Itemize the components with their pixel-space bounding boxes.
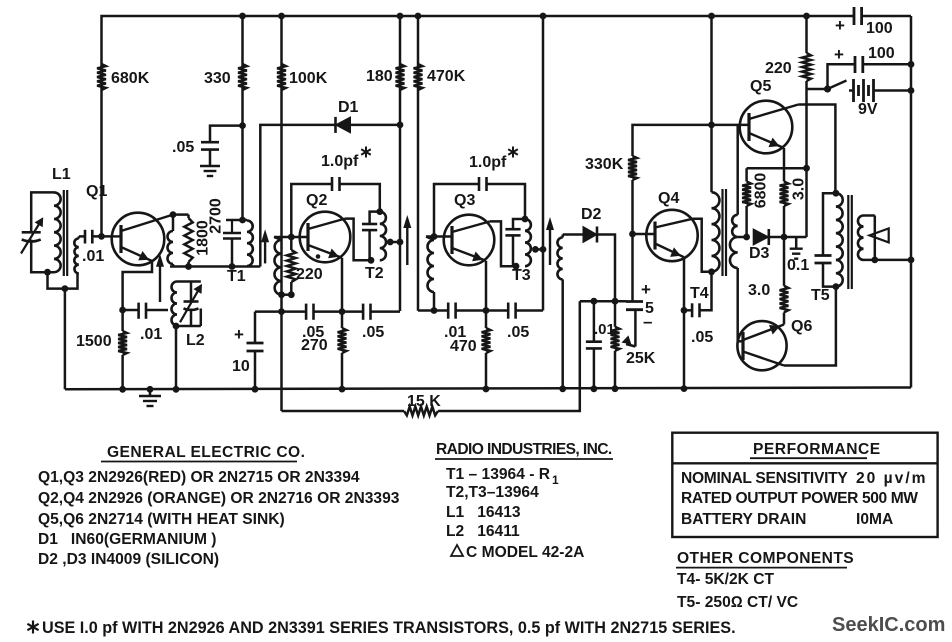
capacitor 5uF <box>626 300 643 303</box>
svg-text:I0MA: I0MA <box>856 511 893 528</box>
node L1 bottom <box>44 269 51 276</box>
wire .05 to ground <box>209 150 212 166</box>
node T3 bottom <box>513 263 520 270</box>
diode D2 <box>583 227 597 243</box>
svg-text:100K: 100K <box>289 70 328 87</box>
node Q1 base bias <box>98 233 105 240</box>
svg-text:0.1: 0.1 <box>787 257 809 274</box>
svg-text:Q3: Q3 <box>454 192 475 209</box>
svg-text:3.0: 3.0 <box>791 178 808 200</box>
wire L1 top <box>31 192 54 232</box>
transistor Q3 <box>444 215 495 266</box>
wire 180 line <box>399 16 402 242</box>
core T4 <box>721 189 723 276</box>
wire ground rail <box>65 388 911 390</box>
ground .05 bypass <box>200 165 220 167</box>
node T3 tap line <box>540 246 547 253</box>
svg-text:T1: T1 <box>227 268 246 285</box>
svg-text:3.0: 3.0 <box>748 282 770 299</box>
svg-text:1: 1 <box>552 473 559 487</box>
wire AVC Q4 <box>580 300 626 303</box>
node gnd-Q4em <box>681 385 688 392</box>
svg-text:T3: T3 <box>512 267 531 284</box>
node switch pivot <box>824 85 831 92</box>
transistor Q6 <box>737 321 786 370</box>
resistor 470K <box>414 64 423 90</box>
wire Q3 emitter <box>485 261 488 311</box>
inductor T2 primary <box>380 212 386 261</box>
text RI line5 <box>451 545 463 556</box>
svg-text:T1 – 13964 - R: T1 – 13964 - R <box>446 466 550 483</box>
capacitor C_100b 100uF <box>854 56 857 73</box>
wire 100K lower <box>280 295 283 312</box>
capacitor .05 Q3 <box>507 303 510 319</box>
svg-text:USE I.0 pf WITH 2N2926 AND 2N3: USE I.0 pf WITH 2N2926 AND 2N3391 SERIES… <box>42 619 736 637</box>
node T2 tap line <box>397 239 404 246</box>
svg-text:330: 330 <box>204 70 231 87</box>
node Q2 base <box>288 234 295 241</box>
resistor 470 <box>485 311 488 329</box>
svg-text:680K: 680K <box>111 70 150 87</box>
node gnd-10uF <box>252 386 259 393</box>
node gnd-.01Q4 <box>591 385 598 392</box>
inductor L2 <box>172 282 177 326</box>
capacitor .01 Q4 <box>593 301 596 342</box>
svg-text:330K: 330K <box>585 156 624 173</box>
node T2 bottom <box>368 257 375 264</box>
node gnd-25K <box>612 385 619 392</box>
wire AVC row Q3 <box>418 309 448 312</box>
svg-text:.05: .05 <box>362 324 384 341</box>
inductor T5 secondary <box>858 216 864 260</box>
inductor T3 primary <box>525 219 531 266</box>
svg-text:.01: .01 <box>140 326 162 343</box>
node T2sec-AVC <box>431 307 438 314</box>
wire T3tap line lower <box>542 16 545 249</box>
ground D3 node <box>795 237 798 249</box>
node rail-speaker <box>908 257 915 264</box>
resistor 6800 <box>745 168 748 181</box>
resistor 15K <box>404 407 438 416</box>
capacitor 2700 <box>231 220 233 233</box>
svg-text:Q2,Q4 2N2926 (ORANGE) OR 2N271: Q2,Q4 2N2926 (ORANGE) OR 2N2716 OR 2N339… <box>38 490 400 507</box>
wire top supply rail <box>102 16 855 236</box>
wire 330 line <box>241 16 244 220</box>
inductor T4 secondary upper <box>732 215 738 237</box>
svg-text:2700: 2700 <box>208 198 225 234</box>
arrow T1 <box>264 235 266 263</box>
svg-text:.05: .05 <box>691 329 713 346</box>
resistor 100K <box>277 64 286 90</box>
wire Q2 emitter <box>341 258 344 312</box>
wire T2 cap stem <box>370 212 380 224</box>
capacitor 0.1 <box>815 254 832 257</box>
wire 100b left <box>828 64 856 89</box>
svg-text:.05: .05 <box>172 139 194 156</box>
resistor 1800 <box>187 215 190 218</box>
wire Q1 base <box>92 235 112 238</box>
svg-text:RATED OUTPUT POWER 500 MW: RATED OUTPUT POWER 500 MW <box>681 490 918 507</box>
svg-text:GENERAL ELECTRIC CO.: GENERAL ELECTRIC CO. <box>107 444 305 461</box>
node Q3 base <box>431 233 438 240</box>
wire Q5 base <box>712 124 750 127</box>
inductor T4 primary <box>712 192 720 271</box>
wire T3 cap stem <box>513 219 525 229</box>
wire 180-line lower <box>399 242 402 311</box>
svg-text:T4: T4 <box>690 285 709 302</box>
node AVC-.01 <box>591 298 598 305</box>
node T1 bottom-2700 <box>229 263 236 270</box>
wire Q3 collector <box>490 221 516 266</box>
transistor Q5 <box>740 101 793 154</box>
wire collector top <box>173 213 189 216</box>
wire D3 cathode <box>769 236 784 239</box>
svg-text:+: + <box>234 325 244 344</box>
svg-text:100: 100 <box>868 45 895 62</box>
wire L2 bottom <box>176 324 179 327</box>
inductor T1 primary <box>247 221 253 267</box>
wire Q5 emitter <box>783 148 786 168</box>
svg-text:D1: D1 <box>338 99 359 116</box>
wire Q6 collector <box>784 287 836 366</box>
wire D1 left <box>260 125 335 267</box>
wire L2 top <box>177 280 201 283</box>
box performance <box>672 433 937 537</box>
svg-text:D1 IN60(GERMANIUM ): D1 IN60(GERMANIUM ) <box>38 531 216 548</box>
resistor 270 <box>341 312 344 328</box>
wire T1 top <box>226 219 247 222</box>
transistor Q4 <box>646 210 697 261</box>
node rail-220 <box>803 13 810 20</box>
node D3 node <box>781 234 788 241</box>
svg-text:6800: 6800 <box>753 173 770 209</box>
svg-text:D2: D2 <box>581 206 602 223</box>
transistor Q1 <box>112 213 165 266</box>
node AVC-25K <box>612 298 619 305</box>
node 220 bottom <box>288 291 295 298</box>
node speaker out <box>871 257 878 264</box>
node T1 sec bottom <box>278 291 285 298</box>
inductor T4 secondary lower <box>730 237 738 268</box>
node T3 top <box>522 216 529 223</box>
inductor T1 drive <box>172 215 175 231</box>
arrow feedback Q1 <box>159 260 161 302</box>
wire Q3 base <box>426 235 452 238</box>
resistor 220 supply <box>805 16 808 53</box>
ground main <box>149 389 152 396</box>
wire D2 cathode <box>597 235 615 302</box>
wire 220 bottom <box>282 293 292 296</box>
svg-text:1.0pf: 1.0pf <box>469 154 507 171</box>
resistor 1500 <box>121 310 124 331</box>
node gnd-T3sec <box>559 385 566 392</box>
wire L1 jog <box>48 272 78 288</box>
arrow T3sec <box>549 223 551 265</box>
capacitor .05 T4 <box>684 309 692 312</box>
svg-text:220: 220 <box>765 60 792 77</box>
inductor T5 primary <box>836 193 843 286</box>
node D3 anode <box>743 234 750 241</box>
capacitor T2 tune <box>362 223 377 226</box>
wire 470K line <box>417 16 420 311</box>
variable capacitor L1 tuning <box>22 231 41 234</box>
wire 330K top <box>633 125 712 156</box>
capacitor .01 Q1 base <box>84 230 87 244</box>
wire D2 anode <box>563 233 583 236</box>
svg-text:+: + <box>834 45 844 64</box>
svg-text:20 µv/m: 20 µv/m <box>856 470 928 487</box>
wire AVC row Q2 <box>255 310 306 313</box>
node Q5 base bias <box>708 122 715 129</box>
svg-text:T5- 250Ω CT/ VC: T5- 250Ω CT/ VC <box>677 594 798 611</box>
wire 15K right <box>438 301 580 411</box>
node rail-470K <box>415 13 422 20</box>
wire T4 sec top <box>736 125 739 215</box>
node Q4 emitter-.05 <box>681 307 688 314</box>
wire Q5 collector <box>798 105 835 194</box>
diode D1 <box>336 117 351 133</box>
svg-text:Q1: Q1 <box>86 183 107 200</box>
node Q1 collector <box>170 211 177 218</box>
wire Q4 base <box>633 233 656 236</box>
switch lever <box>828 81 847 90</box>
capacitor 1.0pf Q2 <box>291 184 332 237</box>
node gnd-470 <box>483 386 490 393</box>
wire Q2 base <box>274 236 308 239</box>
svg-text:270: 270 <box>301 337 328 354</box>
node gnd-270 <box>339 386 346 393</box>
svg-text:D2 ,D3 IN4009 (SILICON): D2 ,D3 IN4009 (SILICON) <box>38 551 219 568</box>
svg-text:.05: .05 <box>507 324 529 341</box>
capacitor C_100a 100uF in supply rail <box>853 7 856 25</box>
node rail-T4 <box>708 13 715 20</box>
node T5 bottom <box>833 283 840 290</box>
node D1-180 <box>397 122 404 129</box>
capacitor .05 Q2a <box>305 304 308 320</box>
wire D1 right <box>351 124 401 127</box>
svg-text:Q5: Q5 <box>750 78 771 95</box>
svg-text:D3: D3 <box>749 245 770 262</box>
node rail-T3tap <box>540 13 547 20</box>
capacitor .01 Q3 <box>447 303 450 319</box>
svg-text:RADIO INDUSTRIES, INC.: RADIO INDUSTRIES, INC. <box>436 441 612 458</box>
svg-text:Q2: Q2 <box>306 192 327 209</box>
resistor 680K <box>97 64 106 90</box>
wire L1 to ground rail <box>64 289 67 390</box>
wire T4 primary line <box>710 16 713 192</box>
transistor Q2 <box>300 212 351 263</box>
marking dot inside Q2 <box>316 254 321 259</box>
wire speaker bottom <box>864 259 875 262</box>
wire .05 bypass <box>210 126 243 143</box>
wire switch stub <box>807 88 828 91</box>
node rail-9V <box>908 87 915 94</box>
wire Q4 collector <box>692 219 711 272</box>
wire Q1 emitter <box>123 261 152 310</box>
resistor 220 Q2 <box>290 237 293 250</box>
node rail-100b <box>908 61 915 68</box>
node L1-gnd <box>62 285 69 292</box>
svg-text:T2: T2 <box>365 265 384 282</box>
resistor 180 <box>396 64 405 90</box>
node T1 top <box>239 217 246 224</box>
wire T5 bracket <box>823 193 836 255</box>
resistor 3.0 lower <box>783 237 786 286</box>
inductor T3 secondary <box>561 235 564 238</box>
svg-text:9V: 9V <box>858 101 878 118</box>
svg-text:+: + <box>641 280 651 299</box>
svg-text:25K: 25K <box>626 350 656 367</box>
svg-text:1500: 1500 <box>76 333 112 350</box>
svg-text:15 K: 15 K <box>407 393 441 410</box>
wire right rail <box>910 16 913 388</box>
node rail-100K <box>278 13 285 20</box>
capacitor .01 Q1 emitter <box>123 309 139 312</box>
wire 6800 top <box>747 167 807 170</box>
svg-text:.01: .01 <box>82 248 104 265</box>
node rail-180 <box>397 13 404 20</box>
capacitor T3 tune <box>505 228 520 231</box>
wire T4 sec to Q6 <box>736 268 739 341</box>
wire T2 tap <box>391 241 400 244</box>
core T5 <box>847 195 849 289</box>
wire T3 tap <box>537 248 543 251</box>
wire 5uF stem <box>631 234 634 302</box>
node L2 bottom <box>173 323 180 330</box>
svg-text:220: 220 <box>296 266 323 283</box>
resistor 3.0 upper <box>783 168 786 181</box>
capacitor 10uF <box>254 312 257 343</box>
svg-text:NOMINAL SENSITIVITY: NOMINAL SENSITIVITY <box>681 470 848 487</box>
svg-text:Q1,Q3 2N2926(RED) OR 2N2715 OR: Q1,Q3 2N2926(RED) OR 2N2715 OR 2N3394 <box>38 469 360 486</box>
node T2 top <box>376 208 383 215</box>
inductor T2 secondary <box>426 237 434 241</box>
node Q4 base <box>629 231 636 238</box>
svg-text:+: + <box>835 16 845 35</box>
node T2 tap coil <box>387 239 394 246</box>
node emitter-470 <box>483 307 490 314</box>
wire D3 to 220line <box>784 236 807 239</box>
wiper 25K <box>634 310 637 347</box>
wire T4 tap <box>738 236 747 239</box>
node 330-.05 <box>239 122 246 129</box>
node T5 top <box>833 190 840 197</box>
svg-text:470: 470 <box>450 338 477 355</box>
svg-text:C MODEL 42-2A: C MODEL 42-2A <box>466 544 584 561</box>
svg-text:180: 180 <box>366 68 393 85</box>
svg-text:–: – <box>643 312 652 331</box>
node T1 bottom-1800 <box>185 263 192 270</box>
inductor L1 secondary <box>74 238 79 273</box>
wire 100K line <box>280 16 283 295</box>
svg-text:T5: T5 <box>811 287 830 304</box>
battery 9V <box>849 89 854 92</box>
svg-text:Q4: Q4 <box>658 190 679 207</box>
svg-text:OTHER COMPONENTS: OTHER COMPONENTS <box>677 550 854 567</box>
wire L1 sec top <box>78 236 81 238</box>
resistor 330K <box>628 156 637 180</box>
svg-text:T2,T3–13964: T2,T3–13964 <box>446 484 539 501</box>
svg-text:L2: L2 <box>186 332 205 349</box>
wire Q2 collector <box>345 219 371 261</box>
wire L1 varcap bottom <box>31 240 54 273</box>
core L1 <box>63 190 65 276</box>
capacitor .05 Q2b <box>362 304 365 320</box>
node gnd-L2 <box>173 386 180 393</box>
wire Q4 emitter <box>683 257 686 387</box>
arrow T2 <box>406 221 408 265</box>
wire L2 to rail <box>175 326 178 389</box>
capacitor 1.0pf Q3 <box>434 184 479 237</box>
node emitter-270 <box>339 308 346 315</box>
star Q3 <box>512 147 514 158</box>
node gnd-1500 <box>119 386 126 393</box>
svg-text:470K: 470K <box>427 68 466 85</box>
inductor L1 primary <box>54 192 61 272</box>
wire speaker top <box>864 214 875 217</box>
variable capacitor L2 trimmer <box>190 282 193 302</box>
wire T1 bottom <box>170 265 260 268</box>
node Q1 emitter-net <box>119 307 126 314</box>
svg-text:L1: L1 <box>52 166 71 183</box>
node T4 pri bottom <box>708 268 715 275</box>
capacitor .05 bypass <box>201 141 219 144</box>
svg-text:1.0pf: 1.0pf <box>321 153 359 170</box>
node T3 tap coil <box>532 246 539 253</box>
svg-text:Q5,Q6 2N2714 (WITH HEAT SINK): Q5,Q6 2N2714 (WITH HEAT SINK) <box>38 511 285 528</box>
svg-text:BATTERY DRAIN: BATTERY DRAIN <box>681 511 806 528</box>
node gnd-sym <box>147 386 154 393</box>
node 220-emitter <box>803 165 810 172</box>
node AVC-100K <box>278 308 285 315</box>
svg-text:10: 10 <box>232 358 250 375</box>
resistor 330 <box>238 64 247 90</box>
svg-text:L1 16413: L1 16413 <box>446 504 521 521</box>
svg-text:L2 16411: L2 16411 <box>446 523 520 540</box>
diode D3 <box>753 229 769 245</box>
svg-text:Q6: Q6 <box>791 318 812 335</box>
svg-text:T4- 5K/2K CT: T4- 5K/2K CT <box>677 571 775 588</box>
wire 15K line <box>282 410 405 413</box>
footnote star <box>32 621 34 634</box>
node rail-330 <box>239 13 246 20</box>
svg-text:PERFORMANCE: PERFORMANCE <box>753 441 881 458</box>
potentiometer 25K <box>614 301 617 327</box>
svg-text:SeekIC.com: SeekIC.com <box>832 614 945 636</box>
svg-text:100: 100 <box>866 20 893 37</box>
speaker <box>870 228 889 242</box>
star Q2 <box>365 147 367 158</box>
inductor T1 secondary <box>274 237 282 240</box>
